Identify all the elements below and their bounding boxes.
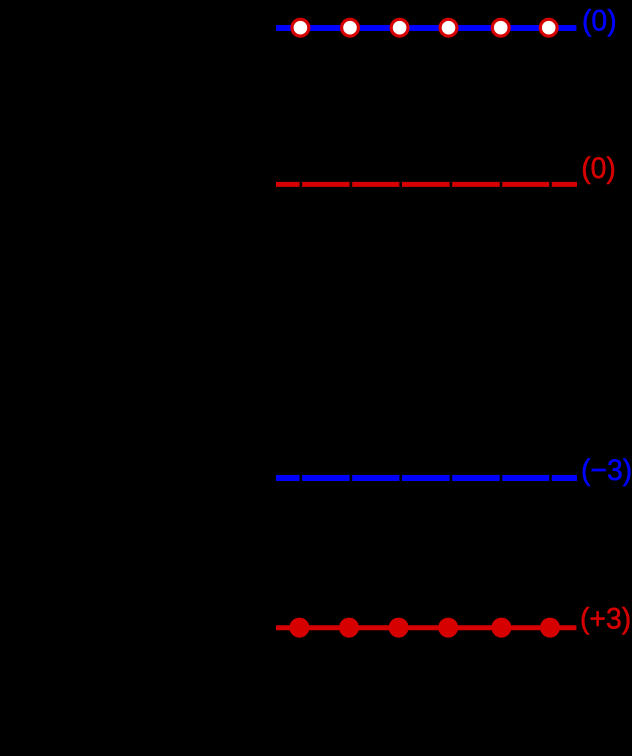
label (0) for E2 — [581, 152, 616, 185]
svg-text:(0): (0) — [582, 5, 617, 38]
svg-text:(0): (0) — [581, 152, 616, 185]
label (0) for E1 — [582, 5, 617, 38]
level line E1 (blue, occupied by open circles) — [276, 25, 576, 31]
label (+3) for E4 — [580, 603, 631, 636]
svg-text:(+3): (+3) — [580, 603, 631, 636]
level line E4 (red, occupied by filled circles) — [276, 625, 576, 630]
label (-3) for E3 — [581, 454, 632, 487]
svg-text:(−3): (−3) — [581, 454, 632, 487]
level line E3 (blue, dashed by tick gaps) — [276, 475, 577, 481]
filled-circle markers on E4 — [289, 618, 560, 638]
open-circle markers on E1 (white fill, red edge) — [292, 19, 557, 36]
level line E2 (red, dashed by tick gaps) — [276, 182, 577, 187]
